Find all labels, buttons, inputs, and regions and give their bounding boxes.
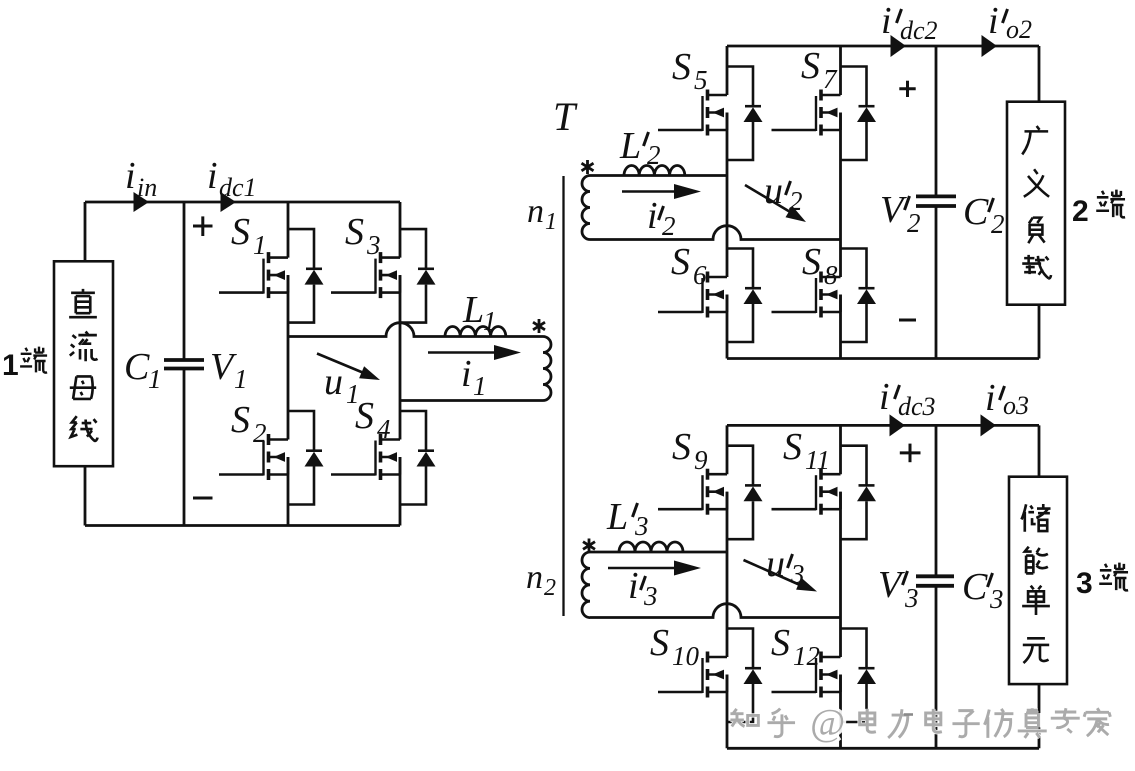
svg-text:o2: o2 [1006, 15, 1032, 44]
svg-text:S: S [672, 426, 691, 468]
watermark 知乎 @电力电子仿真专家 (gray layer) [730, 708, 1110, 738]
label V'2 [880, 189, 921, 238]
svg-text:u: u [764, 170, 783, 212]
switch S3 [331, 229, 436, 323]
wire: capacitor C1 branch lower [183, 369, 186, 526]
label u'3 [766, 543, 805, 589]
svg-text:6: 6 [693, 260, 707, 290]
svg-text:i: i [881, 0, 892, 42]
switch S9 [658, 446, 763, 540]
svg-text:i: i [125, 155, 136, 197]
svg-text:1: 1 [545, 209, 557, 235]
label L'2 [619, 125, 661, 170]
svg-text:12: 12 [793, 641, 820, 671]
svg-text:8: 8 [824, 260, 838, 290]
label C1 [124, 346, 162, 394]
wire: winding2 top to bridge2 leg A midpoint [590, 174, 727, 177]
label S11 [783, 426, 830, 475]
minus sign port1 [193, 497, 213, 500]
label i'dc3 [879, 376, 936, 421]
label i'dc2 [881, 0, 938, 45]
label C'3 [962, 566, 1004, 614]
port3 storage box text 储能单元 [1021, 504, 1050, 663]
label S4 [355, 395, 391, 444]
svg-text:i: i [988, 0, 999, 42]
svg-text:3: 3 [989, 584, 1004, 614]
wire: bridge3 top rail [727, 424, 1039, 427]
watermark 知乎 @电力电子仿真专家 (white halo layer) [730, 708, 1110, 738]
svg-text:S: S [801, 45, 820, 87]
voltage arrow u1 [317, 354, 380, 381]
DC bus box text 直流母线 [69, 289, 97, 441]
wire: bridge3 leg A rail [726, 425, 729, 748]
svg-text:C: C [962, 566, 988, 608]
capacitor C1 [164, 360, 204, 369]
label i'o3 [985, 377, 1029, 420]
label i'2 [647, 195, 676, 241]
svg-text:i: i [985, 377, 996, 419]
transformer primary winding n1 [543, 337, 551, 401]
svg-text:3: 3 [790, 559, 805, 589]
svg-text:1: 1 [346, 379, 360, 409]
label i_dc1 [207, 155, 257, 202]
load box port 2 [1007, 102, 1065, 305]
current arrow i'_dc3 [890, 414, 906, 436]
svg-text:2: 2 [1072, 195, 1089, 228]
svg-text:dc3: dc3 [898, 392, 936, 421]
label S10 [650, 622, 700, 671]
wire: winding3 top to bridge3 leg A midpoint [590, 551, 727, 554]
wire: port2 load branch verticals [1038, 46, 1041, 359]
capacitor C'2 [916, 196, 956, 206]
switch S5 [658, 67, 763, 161]
svg-text:V: V [878, 564, 905, 606]
svg-text:3: 3 [1076, 567, 1093, 600]
label S1 [231, 211, 267, 260]
svg-text:V: V [880, 189, 907, 231]
current arrow i_dc1 [221, 192, 237, 212]
svg-text:S: S [345, 211, 364, 253]
switch S12 [772, 629, 877, 723]
svg-text:dc1: dc1 [219, 173, 257, 202]
DC bus box (port 1) [54, 261, 113, 466]
current arrow i'2 [622, 184, 701, 199]
load box port 3 [1009, 477, 1067, 684]
svg-text:u: u [766, 543, 785, 585]
wire: bridge2 bottom rail [727, 357, 1039, 360]
voltage arrow u'3 [744, 560, 818, 592]
label S5 [672, 46, 708, 95]
svg-text:@: @ [810, 702, 845, 744]
svg-text:3: 3 [366, 230, 381, 260]
svg-text:L: L [619, 125, 641, 167]
label S8 [802, 241, 838, 290]
plus sign port2 [899, 81, 915, 97]
svg-text:in: in [137, 173, 157, 202]
current arrow i'_o2 [982, 35, 998, 57]
wire: port1 bottom rail [85, 524, 400, 527]
svg-text:dc2: dc2 [900, 16, 938, 45]
label n1 [527, 193, 557, 235]
label u1 [324, 361, 360, 409]
wire: bridge3 leg B rail [839, 425, 842, 748]
plus sign port3 [900, 444, 921, 463]
svg-text:1: 1 [253, 230, 267, 260]
label L1 [462, 289, 497, 336]
wire: bridge2 top rail [727, 45, 1039, 48]
inductor L1 [445, 327, 506, 337]
svg-text:1: 1 [2, 349, 19, 382]
wire: capacitor C'3 branch [935, 425, 938, 748]
plus sign port1 [193, 216, 213, 236]
label S9 [672, 426, 708, 475]
svg-text:i: i [207, 155, 218, 197]
wire: capacitor C1 branch upper [183, 202, 186, 360]
svg-text:4: 4 [377, 414, 391, 444]
svg-text:2: 2 [544, 575, 556, 601]
wire: port3 load branch verticals [1038, 425, 1041, 748]
svg-text:10: 10 [672, 641, 700, 671]
current arrow i_in [134, 192, 150, 212]
transformer secondary winding (port3) [582, 552, 590, 618]
label i'o2 [988, 0, 1032, 44]
switch S2 [219, 411, 324, 505]
wire: winding2 bottom to bridge2 leg B midpoint (hump over leg A) [590, 226, 841, 240]
label S2 [231, 399, 267, 448]
svg-text:2: 2 [662, 211, 676, 241]
switch S6 [658, 249, 763, 343]
transformer secondary winding (port2) [582, 176, 590, 240]
svg-text:3: 3 [634, 511, 649, 541]
svg-text:1: 1 [483, 306, 497, 336]
svg-text:S: S [802, 241, 821, 283]
switch S7 [772, 67, 877, 161]
wire: port1 top rail [85, 201, 400, 204]
label n2 [526, 559, 556, 601]
capacitor C'3 [916, 576, 954, 586]
label S12 [771, 622, 820, 671]
svg-text:7: 7 [823, 64, 838, 94]
svg-text:S: S [231, 399, 250, 441]
polarity marker star: transformer primary [533, 319, 545, 333]
polarity marker star: winding 3 [583, 539, 595, 553]
label S6 [671, 241, 707, 290]
switch S8 [772, 249, 877, 343]
inductor L'2 [624, 165, 685, 175]
svg-text:2: 2 [253, 418, 267, 448]
wire: port1 left vertical below DC-bus box [84, 466, 87, 525]
inductor L'3 [619, 542, 683, 552]
switch S10 [658, 629, 763, 723]
label i_in [125, 155, 157, 202]
svg-text:S: S [671, 241, 690, 283]
label i'3 [628, 565, 658, 611]
svg-text:i: i [628, 565, 639, 607]
svg-text:2: 2 [907, 208, 921, 238]
svg-text:i: i [879, 376, 890, 418]
label V'3 [878, 564, 919, 613]
wire: bridge3 bottom rail [727, 747, 1039, 750]
label L'3 [606, 496, 649, 541]
svg-text:V: V [210, 346, 237, 388]
wire: bridge2 leg B rail [839, 46, 842, 359]
minus sign port2 [899, 319, 916, 322]
svg-text:9: 9 [694, 445, 708, 475]
switch S11 [772, 446, 877, 540]
label S3 [345, 211, 381, 260]
label i1 [461, 353, 487, 401]
svg-text:o3: o3 [1003, 391, 1029, 420]
svg-text:S: S [650, 622, 669, 664]
svg-text:1: 1 [473, 371, 487, 401]
wire: bridge1 leg A rail [287, 202, 290, 526]
svg-text:1: 1 [234, 364, 248, 394]
label S7 [801, 45, 838, 94]
voltage arrow u'2 [745, 185, 806, 222]
wire: winding3 bottom to bridge3 leg B midpoint (hump over leg A) [590, 604, 841, 618]
svg-text:i: i [647, 195, 658, 237]
wire: bridge1 midpoint B to transformer primary bottom [400, 399, 543, 402]
svg-text:L: L [606, 496, 628, 538]
svg-text:i: i [461, 353, 472, 395]
wire: port1 left vertical above DC-bus box [84, 202, 87, 261]
current arrow i'_o3 [981, 414, 997, 436]
wire: bridge2 leg A rail [726, 46, 729, 359]
label V1 [210, 346, 248, 394]
current arrow i'3 [608, 561, 701, 576]
svg-text:C: C [963, 191, 989, 233]
svg-text:2: 2 [647, 140, 661, 170]
svg-text:2: 2 [789, 186, 803, 216]
port2 load box text 广义负载 [1022, 126, 1051, 278]
svg-text:C: C [124, 346, 150, 388]
svg-text:5: 5 [694, 65, 708, 95]
svg-text:11: 11 [805, 445, 830, 475]
svg-text:S: S [672, 46, 691, 88]
svg-text:T: T [553, 94, 578, 139]
svg-text:2: 2 [991, 209, 1005, 239]
svg-text:u: u [324, 361, 343, 403]
svg-text:n: n [526, 559, 543, 596]
svg-text:1: 1 [148, 364, 162, 394]
svg-text:3: 3 [904, 583, 919, 613]
svg-text:n: n [527, 193, 544, 230]
switch S4 [331, 411, 436, 505]
svg-text:L: L [462, 289, 484, 331]
svg-text:S: S [771, 622, 790, 664]
current arrow i'_dc2 [891, 35, 907, 57]
polarity marker star: winding 2 [582, 160, 594, 174]
svg-text:S: S [231, 211, 250, 253]
wire: bridge1 leg B rail [399, 202, 402, 526]
label u'2 [764, 170, 803, 216]
svg-text:3: 3 [643, 581, 658, 611]
wire: bridge1 midpoint A to transformer primary top (hump over leg B) [288, 323, 543, 337]
wire: capacitor C'2 branch [935, 46, 938, 359]
svg-text:S: S [783, 426, 802, 468]
current arrow i1 [428, 345, 521, 360]
switch S1 [219, 229, 324, 323]
label C'2 [963, 191, 1005, 239]
minus sign port3 (faint under watermark) [904, 713, 913, 716]
transformer core [562, 176, 564, 616]
